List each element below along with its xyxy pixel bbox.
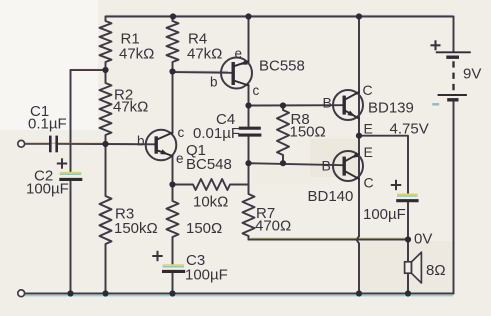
svg-text:C: C bbox=[364, 175, 374, 191]
svg-text:100µF: 100µF bbox=[185, 267, 228, 284]
svg-text:150kΩ: 150kΩ bbox=[114, 220, 158, 237]
svg-text:0V: 0V bbox=[414, 231, 432, 248]
svg-text:b: b bbox=[210, 75, 218, 90]
svg-text:150Ω: 150Ω bbox=[186, 220, 222, 237]
svg-text:150Ω: 150Ω bbox=[290, 124, 326, 141]
svg-text:47kΩ: 47kΩ bbox=[113, 99, 148, 116]
svg-text:BC548: BC548 bbox=[186, 156, 232, 173]
svg-text:100µF: 100µF bbox=[26, 181, 69, 198]
svg-text:8Ω: 8Ω bbox=[426, 262, 446, 279]
svg-text:C: C bbox=[363, 82, 373, 98]
svg-text:4.75V: 4.75V bbox=[390, 121, 429, 138]
svg-text:c: c bbox=[178, 125, 185, 140]
svg-text:b: b bbox=[137, 134, 145, 149]
svg-text:47kΩ: 47kΩ bbox=[187, 46, 222, 63]
svg-text:0.1µF: 0.1µF bbox=[28, 116, 67, 133]
svg-text:E: E bbox=[364, 121, 373, 137]
svg-text:47kΩ: 47kΩ bbox=[119, 46, 154, 63]
svg-text:BD139: BD139 bbox=[368, 100, 414, 117]
svg-text:e: e bbox=[235, 46, 243, 61]
svg-text:100µF: 100µF bbox=[363, 206, 406, 223]
svg-text:470Ω: 470Ω bbox=[255, 218, 291, 235]
svg-text:BD140: BD140 bbox=[308, 188, 354, 205]
svg-text:BC558: BC558 bbox=[259, 58, 305, 75]
svg-text:e: e bbox=[176, 151, 184, 166]
svg-text:E: E bbox=[364, 144, 373, 160]
svg-text:B: B bbox=[323, 95, 332, 111]
svg-text:10kΩ: 10kΩ bbox=[193, 194, 228, 211]
svg-text:B: B bbox=[322, 158, 331, 174]
svg-text:9V: 9V bbox=[463, 66, 481, 83]
svg-text:c: c bbox=[253, 83, 260, 98]
svg-text:0.01µF: 0.01µF bbox=[193, 125, 240, 142]
